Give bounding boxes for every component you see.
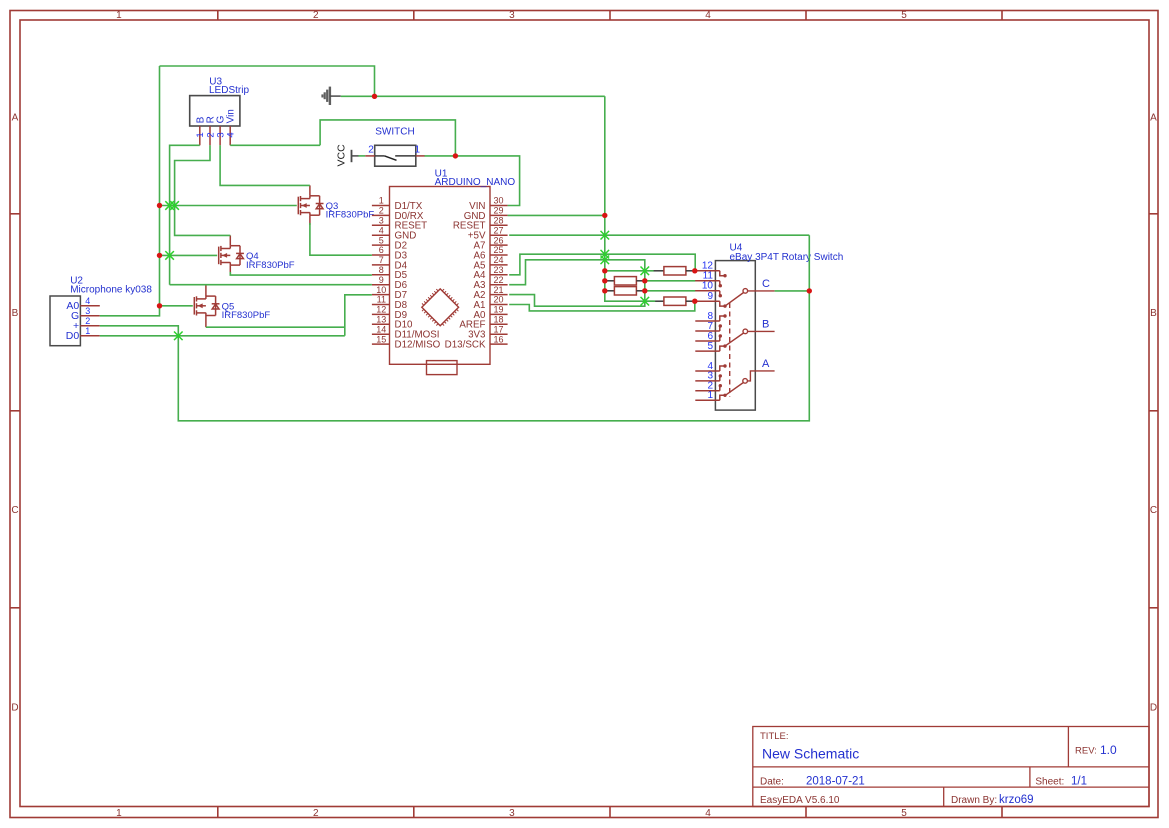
cross marker A4 line x GND rail <box>601 250 610 259</box>
junction node C / +5V rail <box>807 288 812 293</box>
svg-text:2018-07-21: 2018-07-21 <box>806 776 865 788</box>
junction at SWITCH pin 1 / VIN <box>453 153 458 158</box>
svg-text:IRF830PbF: IRF830PbF <box>222 310 271 321</box>
junction Q5 gate node <box>157 303 162 308</box>
svg-text:krzo69: krzo69 <box>999 794 1034 806</box>
svg-text:C: C <box>762 278 770 290</box>
svg-text:21: 21 <box>493 285 503 295</box>
svg-text:1: 1 <box>379 196 384 206</box>
svg-text:TITLE:: TITLE: <box>760 731 789 742</box>
svg-text:13: 13 <box>376 315 386 325</box>
svg-text:6: 6 <box>379 245 384 255</box>
U4 deck select dashed line <box>729 303 731 397</box>
svg-text:D: D <box>1150 703 1157 714</box>
wire R4 left feed <box>645 300 654 302</box>
svg-text:A: A <box>1150 113 1157 124</box>
svg-text:1: 1 <box>85 326 90 336</box>
cross marker Q3 gate x rail R <box>170 201 179 210</box>
resistor R1 (to switch pin 12) <box>653 270 664 272</box>
svg-text:18: 18 <box>493 315 503 325</box>
wire U3 pin3 to Q3 drain <box>220 145 310 185</box>
svg-text:Sheet:: Sheet: <box>1035 777 1064 788</box>
wire Q3 source to D3 <box>310 223 372 255</box>
svg-text:23: 23 <box>493 265 503 275</box>
cross marker Q3 gate x rail B <box>165 201 174 210</box>
svg-text:EasyEDA V5.6.10: EasyEDA V5.6.10 <box>760 795 840 806</box>
junction R2 right <box>642 278 647 283</box>
wire U3 loop top <box>160 66 375 96</box>
svg-text:eBay 3P4T Rotary Switch: eBay 3P4T Rotary Switch <box>730 252 844 263</box>
wire ground net to GND rail <box>341 95 605 97</box>
wire rail1 left <box>100 66 160 316</box>
cross marker D0 x plus rail <box>174 332 183 341</box>
svg-text:4: 4 <box>379 225 384 235</box>
svg-text:3: 3 <box>379 216 384 226</box>
junction Q4 gate node <box>157 253 162 258</box>
svg-text:D0: D0 <box>66 330 80 342</box>
junction R1 right / U4 pin 12 <box>692 268 697 273</box>
junction GND pin 29 node <box>602 213 607 218</box>
svg-text:LEDStrip: LEDStrip <box>209 85 249 96</box>
wire A2 to R4 row <box>509 295 645 307</box>
svg-text:3: 3 <box>85 306 90 316</box>
junction R1 left <box>602 268 607 273</box>
svg-text:17: 17 <box>493 324 503 334</box>
wire right rail down <box>100 235 810 421</box>
junction at ground / U3 Vin net <box>372 94 377 99</box>
cross marker R4 row x A3 riser <box>641 297 650 306</box>
junction R3 right <box>642 288 647 293</box>
svg-text:Drawn By:: Drawn By: <box>951 795 997 806</box>
U4 wiper B <box>725 329 775 346</box>
svg-text:2: 2 <box>85 316 90 326</box>
svg-text:1: 1 <box>415 144 421 155</box>
resistor R2 (to switch pin 11) <box>604 280 615 282</box>
svg-text:VCC: VCC <box>335 144 347 167</box>
transistor Q4 IRF830PbF <box>219 246 244 265</box>
svg-text:1.0: 1.0 <box>1100 743 1117 757</box>
svg-text:19: 19 <box>493 305 503 315</box>
wire switch to VIN <box>425 156 520 206</box>
wire Q4 gate <box>160 254 218 256</box>
svg-text:IRF830PbF: IRF830PbF <box>326 210 375 221</box>
wire Q4 source to D5 <box>230 272 372 275</box>
U1 pins right side 30-16 <box>490 206 508 345</box>
svg-text:C: C <box>11 505 18 516</box>
svg-text:4: 4 <box>226 132 237 137</box>
svg-text:22: 22 <box>493 275 503 285</box>
svg-text:B: B <box>762 319 769 331</box>
svg-text:14: 14 <box>376 324 386 334</box>
svg-text:D12/MISO: D12/MISO <box>395 340 441 351</box>
svg-text:REV:: REV: <box>1075 746 1097 757</box>
svg-text:2: 2 <box>368 144 374 155</box>
svg-text:2: 2 <box>313 808 319 819</box>
wire R2 right to pin 11 <box>645 280 695 282</box>
wire main vertical rail <box>605 96 655 301</box>
junction R2 left <box>602 278 607 283</box>
wire R1 left feed <box>605 270 654 272</box>
svg-text:25: 25 <box>493 245 503 255</box>
power flag VCC <box>352 150 366 162</box>
svg-text:B: B <box>12 308 19 319</box>
svg-text:Microphone ky038: Microphone ky038 <box>70 284 152 295</box>
ground <box>322 87 340 105</box>
wire C output <box>775 290 810 292</box>
IC U1 ARDUINO_NANO body <box>390 187 491 375</box>
svg-text:4: 4 <box>705 808 711 819</box>
transistor Q5 IRF830PbF <box>194 296 219 315</box>
wire D7 riser <box>345 295 372 336</box>
junction R3 left <box>602 288 607 293</box>
U2 pins 4,3,2,1 <box>80 306 99 336</box>
resistor R3 (to switch pin 10) <box>604 290 615 292</box>
svg-text:4: 4 <box>85 296 90 306</box>
U4 wiper A <box>725 371 775 396</box>
svg-text:1/1: 1/1 <box>1071 776 1087 788</box>
svg-text:28: 28 <box>493 216 503 226</box>
svg-text:B: B <box>1150 308 1157 319</box>
wire A3 riser <box>509 260 645 301</box>
svg-text:16: 16 <box>493 334 503 344</box>
svg-text:1: 1 <box>116 808 122 819</box>
svg-text:C: C <box>1150 505 1157 516</box>
svg-text:2: 2 <box>379 206 384 216</box>
cross marker Q4 gate x rail B <box>165 251 174 260</box>
svg-text:20: 20 <box>493 295 503 305</box>
U3 LEDStrip body <box>190 96 240 126</box>
svg-text:IRF830PbF: IRF830PbF <box>246 260 295 271</box>
wire U3 pin4 Vin <box>230 144 320 146</box>
svg-text:15: 15 <box>376 334 386 344</box>
svg-text:27: 27 <box>493 225 503 235</box>
U2 Microphone ky038 body <box>50 296 80 346</box>
junction R4 right / U4 pin 9 <box>692 299 697 304</box>
wire A4 to R1 right <box>509 254 695 275</box>
junction Q3 gate node <box>157 203 162 208</box>
svg-text:3: 3 <box>509 808 515 819</box>
wire +5V pin 27 to right rail <box>509 234 809 236</box>
svg-text:9: 9 <box>379 275 384 285</box>
title block <box>753 727 1149 807</box>
svg-text:11: 11 <box>377 295 386 305</box>
svg-text:5: 5 <box>379 235 384 245</box>
resistor R4 (to switch pin 9) <box>653 300 664 302</box>
svg-text:A: A <box>12 113 19 124</box>
cross marker A3 line x GND rail <box>601 256 610 265</box>
svg-text:10: 10 <box>376 285 386 295</box>
wire D6 line <box>170 284 372 286</box>
svg-text:26: 26 <box>493 235 503 245</box>
wire Q5 gate <box>160 305 193 307</box>
transistor Q3 IRF830PbF <box>298 196 323 215</box>
wire Q5 source to D0 riser <box>206 326 345 328</box>
svg-text:4: 4 <box>705 10 711 21</box>
svg-text:A: A <box>762 358 770 370</box>
wire U3 pin2 to Q4 drain <box>175 145 231 235</box>
wire GND pin 29 <box>508 214 605 216</box>
svg-text:5: 5 <box>901 808 907 819</box>
svg-text:D13/SCK: D13/SCK <box>445 340 486 351</box>
svg-text:7: 7 <box>379 255 384 265</box>
wire R3 right to pin 10 <box>645 290 695 292</box>
svg-text:5: 5 <box>901 10 907 21</box>
svg-text:D: D <box>11 703 18 714</box>
svg-text:New Schematic: New Schematic <box>762 746 859 762</box>
wire Q3 gate <box>160 205 297 207</box>
U1 pins left side 1-15 <box>372 206 390 345</box>
svg-text:24: 24 <box>493 255 503 265</box>
svg-text:1: 1 <box>116 10 122 21</box>
svg-text:1: 1 <box>707 390 713 401</box>
svg-text:8: 8 <box>379 265 384 275</box>
wire A1 to R4 right <box>509 301 695 311</box>
wire U2 D0 <box>100 335 345 337</box>
cross marker +5V x GND rail <box>601 231 610 240</box>
svg-text:ARDUINO_NANO: ARDUINO_NANO <box>435 177 516 188</box>
U4 pins 12..1 <box>695 271 725 401</box>
cross marker R1 row x A3 riser <box>641 267 650 276</box>
svg-text:9: 9 <box>707 291 713 302</box>
U3 pins 1-4 <box>200 126 230 145</box>
svg-text:Date:: Date: <box>760 777 784 788</box>
svg-text:5: 5 <box>707 341 713 352</box>
svg-text:30: 30 <box>493 196 503 206</box>
svg-text:SWITCH: SWITCH <box>375 127 414 138</box>
svg-text:12: 12 <box>376 305 386 315</box>
wire U3 pin1 to rail2 <box>170 145 200 284</box>
wire switch loop <box>320 120 455 156</box>
svg-text:2: 2 <box>313 10 319 21</box>
svg-text:3: 3 <box>509 10 515 21</box>
U4 wiper C <box>725 289 775 307</box>
svg-text:Vin: Vin <box>226 109 237 123</box>
svg-text:29: 29 <box>493 206 503 216</box>
U4 eBay 3P4T Rotary Switch body <box>715 261 755 411</box>
svg-text:10: 10 <box>702 281 714 292</box>
U4 contact dots <box>723 274 726 277</box>
